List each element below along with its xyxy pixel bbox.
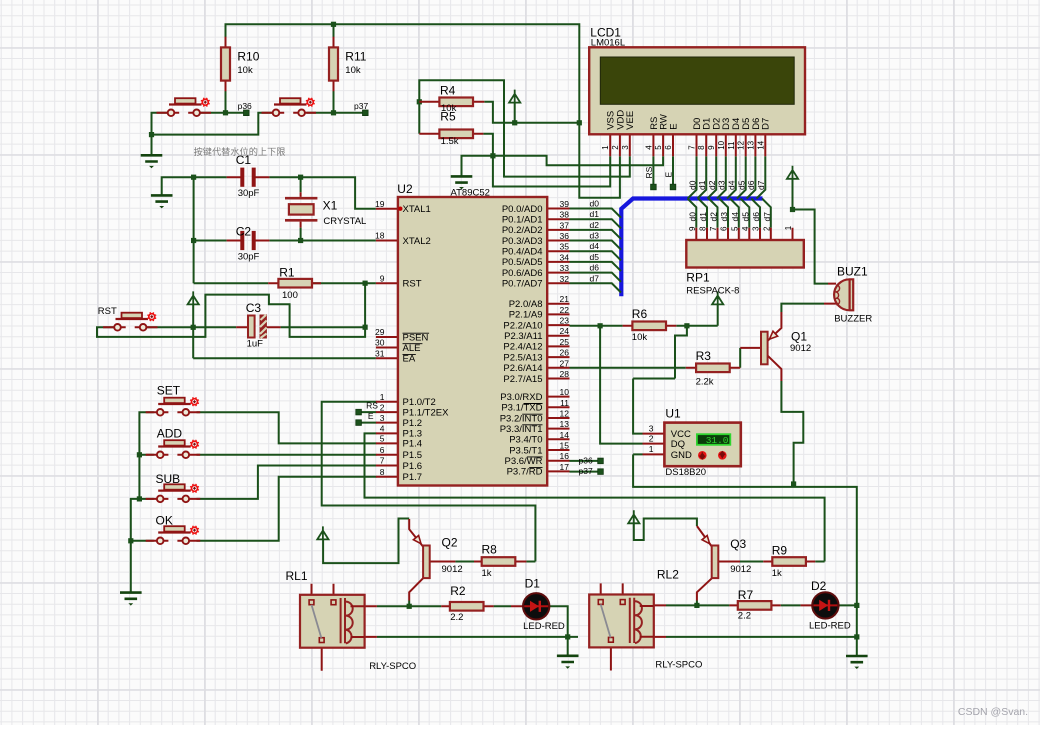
svg-text:30pF: 30pF — [238, 188, 260, 199]
svg-text:d7: d7 — [762, 212, 772, 222]
svg-text:39: 39 — [560, 199, 570, 209]
svg-text:24: 24 — [560, 326, 570, 336]
svg-text:4: 4 — [741, 226, 750, 231]
svg-text:1: 1 — [649, 444, 654, 454]
svg-text:1uF: 1uF — [247, 338, 264, 349]
svg-text:d1: d1 — [590, 209, 600, 219]
svg-text:P2.0/A8: P2.0/A8 — [509, 299, 543, 310]
svg-text:23: 23 — [560, 316, 570, 326]
svg-text:8: 8 — [697, 145, 706, 150]
svg-text:30pF: 30pF — [238, 252, 260, 263]
svg-text:12: 12 — [737, 140, 746, 149]
svg-text:P1.0/T2: P1.0/T2 — [403, 397, 436, 408]
svg-text:RESPACK-8: RESPACK-8 — [686, 286, 739, 297]
svg-text:25: 25 — [560, 337, 570, 347]
svg-text:14: 14 — [560, 430, 570, 440]
svg-text:1k: 1k — [482, 568, 492, 579]
svg-text:P2.3/A11: P2.3/A11 — [504, 331, 542, 342]
svg-text:16: 16 — [560, 451, 570, 461]
svg-text:9012: 9012 — [730, 564, 751, 575]
svg-text:p37: p37 — [354, 101, 368, 111]
svg-text:R3: R3 — [696, 349, 712, 363]
svg-text:XTAL2: XTAL2 — [403, 236, 431, 247]
svg-text:RST: RST — [403, 279, 422, 290]
svg-text:6: 6 — [720, 226, 729, 231]
svg-text:Q1: Q1 — [791, 330, 807, 344]
svg-text:d3: d3 — [590, 231, 600, 241]
svg-text:RP1: RP1 — [686, 271, 710, 285]
svg-text:CRYSTAL: CRYSTAL — [323, 216, 366, 227]
svg-text:d3: d3 — [719, 212, 729, 222]
svg-text:2: 2 — [762, 226, 771, 231]
svg-text:d6: d6 — [751, 212, 761, 222]
svg-text:R10: R10 — [237, 50, 259, 64]
svg-text:U1: U1 — [665, 407, 681, 421]
svg-text:d6: d6 — [590, 263, 600, 273]
svg-text:10k: 10k — [237, 65, 253, 76]
svg-text:30: 30 — [375, 338, 385, 348]
svg-text:3: 3 — [621, 145, 630, 150]
svg-text:p37: p37 — [579, 466, 593, 476]
svg-text:9: 9 — [707, 145, 716, 150]
svg-text:R4: R4 — [440, 84, 456, 98]
svg-text:19: 19 — [375, 199, 385, 209]
svg-text:100: 100 — [282, 290, 298, 301]
svg-text:17: 17 — [560, 462, 570, 472]
svg-text:P1.7: P1.7 — [403, 472, 423, 483]
svg-text:4: 4 — [644, 145, 653, 150]
svg-text:R8: R8 — [482, 543, 498, 557]
svg-text:P1.5: P1.5 — [403, 450, 423, 461]
svg-text:P0.2/AD2: P0.2/AD2 — [502, 225, 543, 236]
svg-text:RLY-SPCO: RLY-SPCO — [655, 660, 702, 671]
svg-text:29: 29 — [375, 327, 385, 337]
svg-text:R9: R9 — [772, 543, 788, 557]
svg-text:E: E — [668, 123, 679, 129]
svg-text:11: 11 — [727, 141, 736, 150]
svg-text:8: 8 — [380, 467, 385, 477]
svg-text:22: 22 — [560, 305, 570, 315]
svg-text:27: 27 — [560, 358, 570, 368]
svg-text:d7: d7 — [756, 180, 766, 190]
svg-text:R11: R11 — [345, 50, 366, 64]
svg-text:P1.6: P1.6 — [403, 461, 423, 472]
svg-text:P2.6/A14: P2.6/A14 — [503, 363, 542, 374]
svg-text:RS: RS — [366, 401, 378, 411]
svg-text:BUZ1: BUZ1 — [837, 265, 868, 279]
svg-text:18: 18 — [375, 231, 385, 241]
svg-text:1k: 1k — [772, 568, 782, 579]
svg-text:10k: 10k — [345, 65, 361, 76]
svg-text:P2.2/A10: P2.2/A10 — [503, 320, 542, 331]
svg-text:p36: p36 — [579, 455, 593, 465]
svg-text:31: 31 — [375, 348, 385, 358]
svg-text:13: 13 — [746, 140, 755, 149]
svg-text:d5: d5 — [740, 212, 750, 222]
svg-text:p36: p36 — [238, 101, 252, 111]
svg-text:R6: R6 — [632, 307, 648, 321]
svg-text:4: 4 — [380, 424, 385, 434]
svg-text:D7: D7 — [761, 118, 772, 130]
svg-text:P0.5/AD5: P0.5/AD5 — [502, 257, 543, 268]
svg-text:9012: 9012 — [790, 343, 811, 354]
svg-text:38: 38 — [560, 210, 570, 220]
svg-text:d5: d5 — [737, 180, 747, 190]
svg-text:36: 36 — [560, 231, 570, 241]
svg-text:P0.4/AD4: P0.4/AD4 — [502, 247, 543, 258]
svg-text:d1: d1 — [698, 212, 708, 222]
svg-text:DS18B20: DS18B20 — [665, 467, 706, 478]
svg-text:32: 32 — [560, 274, 570, 284]
svg-text:RL1: RL1 — [286, 569, 308, 583]
svg-text:2: 2 — [611, 145, 620, 150]
svg-text:10: 10 — [717, 140, 726, 149]
svg-text:d7: d7 — [590, 273, 600, 283]
svg-text:P1.2: P1.2 — [403, 418, 423, 429]
svg-text:R2: R2 — [450, 584, 466, 598]
svg-text:26: 26 — [560, 348, 570, 358]
svg-text:7: 7 — [688, 145, 697, 150]
svg-text:d0: d0 — [687, 212, 697, 222]
svg-text:15: 15 — [560, 441, 570, 451]
svg-text:SUB: SUB — [156, 472, 181, 486]
svg-text:d4: d4 — [727, 180, 737, 190]
svg-text:28: 28 — [560, 369, 570, 379]
svg-text:LED-RED: LED-RED — [523, 621, 565, 632]
svg-text:SET: SET — [157, 384, 181, 398]
svg-text:5: 5 — [380, 434, 385, 444]
svg-text:2: 2 — [649, 433, 654, 443]
svg-text:1: 1 — [784, 225, 793, 230]
svg-text:P0.1/AD1: P0.1/AD1 — [502, 214, 543, 225]
svg-text:P3.1/TXD: P3.1/TXD — [501, 403, 542, 414]
svg-text:P3.6/WR: P3.6/WR — [504, 456, 542, 467]
svg-text:AT89C52: AT89C52 — [451, 188, 490, 199]
svg-text:PSEN: PSEN — [403, 332, 429, 343]
svg-text:31.0: 31.0 — [706, 435, 729, 446]
svg-text:D2: D2 — [811, 579, 827, 593]
svg-text:ALE: ALE — [403, 343, 421, 354]
svg-text:P2.1/A9: P2.1/A9 — [509, 310, 543, 321]
svg-text:P0.7/AD7: P0.7/AD7 — [502, 279, 543, 290]
svg-text:Q3: Q3 — [730, 537, 746, 551]
svg-text:X1: X1 — [323, 199, 338, 213]
svg-text:P3.2/INT0: P3.2/INT0 — [500, 413, 543, 424]
svg-text:6: 6 — [380, 445, 385, 455]
svg-text:13: 13 — [560, 419, 570, 429]
svg-text:2.2: 2.2 — [450, 612, 463, 623]
svg-text:14: 14 — [756, 140, 765, 149]
svg-text:d2: d2 — [709, 212, 719, 222]
svg-text:Q2: Q2 — [442, 536, 458, 550]
svg-text:P0.0/AD0: P0.0/AD0 — [502, 204, 543, 215]
svg-text:12: 12 — [560, 408, 570, 418]
svg-text:P2.4/A12: P2.4/A12 — [503, 342, 542, 353]
svg-text:34: 34 — [560, 252, 570, 262]
svg-text:P3.7/RD: P3.7/RD — [507, 467, 543, 478]
svg-text:P1.1/T2EX: P1.1/T2EX — [403, 407, 450, 418]
svg-text:d3: d3 — [717, 180, 727, 190]
svg-text:5: 5 — [654, 145, 663, 150]
svg-text:P0.6/AD6: P0.6/AD6 — [502, 268, 543, 279]
svg-text:d2: d2 — [707, 180, 717, 190]
svg-text:d4: d4 — [730, 212, 740, 222]
svg-text:7: 7 — [709, 226, 718, 231]
svg-text:VEE: VEE — [625, 111, 636, 130]
svg-text:1: 1 — [601, 145, 610, 150]
svg-text:37: 37 — [560, 220, 570, 230]
svg-text:9: 9 — [688, 226, 697, 231]
svg-text:P3.3/INT1: P3.3/INT1 — [500, 424, 543, 435]
svg-text:1: 1 — [380, 392, 385, 402]
svg-text:7: 7 — [380, 456, 385, 466]
svg-text:8: 8 — [699, 226, 708, 231]
svg-text:CSDN @Svan.: CSDN @Svan. — [958, 706, 1028, 718]
svg-text:RLY-SPCO: RLY-SPCO — [369, 661, 416, 672]
svg-text:DQ: DQ — [671, 439, 685, 450]
svg-text:3: 3 — [380, 413, 385, 423]
svg-text:3: 3 — [752, 226, 761, 231]
svg-text:d0: d0 — [590, 199, 600, 209]
svg-text:d4: d4 — [590, 241, 600, 251]
svg-text:d1: d1 — [697, 180, 707, 190]
svg-text:d2: d2 — [590, 220, 600, 230]
svg-text:P0.3/AD3: P0.3/AD3 — [502, 236, 543, 247]
svg-text:EA: EA — [403, 354, 416, 365]
svg-text:按键代替水位的上下限: 按键代替水位的上下限 — [194, 146, 286, 157]
svg-text:P3.5/T1: P3.5/T1 — [509, 445, 542, 456]
svg-text:33: 33 — [560, 263, 570, 273]
svg-text:P3.4/T0: P3.4/T0 — [509, 435, 542, 446]
svg-text:R1: R1 — [279, 266, 295, 280]
svg-text:10k: 10k — [441, 103, 457, 114]
svg-text:9012: 9012 — [442, 564, 463, 575]
svg-text:P2.7/A15: P2.7/A15 — [503, 374, 542, 385]
svg-text:5: 5 — [730, 226, 739, 231]
svg-text:21: 21 — [560, 294, 570, 304]
svg-text:10: 10 — [560, 387, 570, 397]
svg-text:RS: RS — [644, 166, 654, 178]
svg-text:C3: C3 — [246, 301, 262, 315]
svg-text:11: 11 — [560, 398, 569, 408]
svg-text:LED-RED: LED-RED — [809, 621, 851, 632]
svg-text:RST: RST — [98, 306, 117, 317]
svg-text:C2: C2 — [236, 225, 252, 239]
svg-text:R7: R7 — [738, 588, 754, 602]
svg-text:9: 9 — [380, 273, 385, 283]
svg-text:LM016L: LM016L — [591, 38, 625, 49]
svg-text:35: 35 — [560, 242, 570, 252]
svg-text:2.2: 2.2 — [738, 611, 751, 622]
svg-text:2: 2 — [380, 402, 385, 412]
svg-text:d6: d6 — [746, 180, 756, 190]
svg-text:2.2k: 2.2k — [696, 377, 714, 388]
svg-text:3: 3 — [649, 423, 654, 433]
svg-text:P3.0/RXD: P3.0/RXD — [500, 392, 542, 403]
svg-text:E: E — [368, 411, 374, 421]
svg-text:BUZZER: BUZZER — [834, 314, 872, 325]
svg-text:6: 6 — [664, 145, 673, 150]
svg-text:1.5k: 1.5k — [441, 136, 459, 147]
svg-text:ADD: ADD — [157, 427, 183, 441]
svg-text:RL2: RL2 — [657, 567, 679, 581]
svg-text:GND: GND — [671, 450, 692, 461]
svg-text:d0: d0 — [687, 180, 697, 190]
svg-text:U2: U2 — [397, 182, 413, 196]
svg-text:10k: 10k — [632, 332, 648, 343]
svg-text:P1.4: P1.4 — [403, 439, 423, 450]
svg-text:P2.5/A13: P2.5/A13 — [503, 352, 542, 363]
svg-text:OK: OK — [156, 513, 173, 527]
svg-text:d5: d5 — [590, 252, 600, 262]
svg-text:D1: D1 — [525, 577, 541, 591]
svg-text:XTAL1: XTAL1 — [403, 204, 431, 215]
svg-text:E: E — [664, 172, 674, 178]
